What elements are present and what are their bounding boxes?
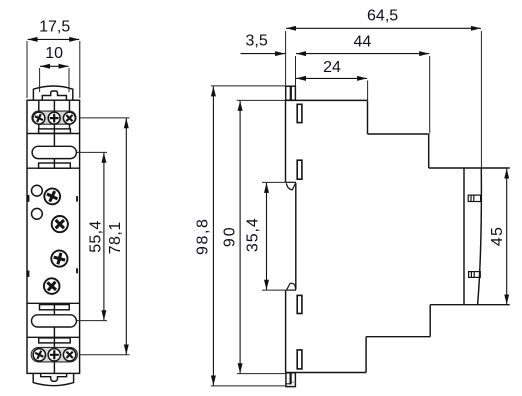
extension line side 35,4 top: [262, 181, 285, 183]
cover hinge hook bottom: [287, 283, 296, 290]
top terminal slot stadium: [32, 111, 76, 124]
dimension line 17,5: [28, 38, 80, 40]
top cap: [33, 86, 72, 100]
indicator hole 2: [32, 208, 43, 219]
case seam tick right lower: [76, 268, 78, 273]
din clip tab top: [286, 86, 296, 100]
potentiometer screw A: [42, 186, 63, 207]
case seam tick right upper: [76, 196, 78, 202]
din clip tab bottom inner step: [286, 383, 291, 385]
terminal screw side rect 1: [297, 104, 302, 122]
case seam tick left upper: [28, 195, 30, 202]
screw terminal 5: [48, 349, 60, 361]
extension line front 78,1 bottom: [80, 354, 130, 356]
divider bottom of top oval section: [27, 167, 80, 169]
screw terminal 2: [48, 112, 60, 124]
top step horizontal 2 with 45 extension: [429, 167, 510, 169]
svg-text:98,8: 98,8: [195, 217, 212, 255]
top label plate: [39, 129, 71, 134]
top surface: [286, 99, 368, 101]
dimension line 98,8: [212, 86, 214, 385]
din column curved right edge: [478, 168, 482, 304]
din rail clip pin lower: [469, 272, 481, 278]
top terminal block slot lines: [39, 100, 70, 133]
svg-text:64,5: 64,5: [367, 7, 398, 24]
din clip tab bottom inner line: [290, 373, 292, 385]
terminal screw side rect 4: [297, 350, 302, 369]
bottom label plate: [39, 338, 70, 343]
center line upper oval section: [53, 134, 55, 169]
case seam tick left lower: [28, 271, 30, 277]
bottom step vertical 1: [365, 337, 367, 373]
svg-text:90: 90: [222, 225, 239, 247]
screw terminal 6: [61, 346, 79, 364]
fixing hole oval top: [32, 146, 76, 158]
dimension line 3,5 leader: [241, 53, 286, 55]
divider top of bottom oval section: [27, 302, 80, 304]
front face middle recessed: [295, 183, 297, 290]
front body outline: [27, 100, 80, 373]
top step horizontal 1: [368, 133, 429, 135]
extension line front 78,1 top: [80, 117, 130, 119]
dimension line 35,4: [266, 183, 268, 290]
screw terminal 4: [31, 347, 47, 363]
din column left edge: [463, 168, 465, 305]
svg-text:3,5: 3,5: [245, 33, 267, 50]
potentiometer screw B: [48, 213, 71, 236]
svg-text:10: 10: [45, 45, 63, 62]
dimension line 44: [296, 53, 429, 55]
label plate above bottom oval: [40, 305, 70, 310]
svg-text:55,4: 55,4: [88, 220, 105, 252]
bottom surface: [286, 372, 367, 374]
label plate under top oval: [39, 163, 71, 168]
extension line side 44 right: [429, 56, 431, 134]
divider top of bottom terminal block: [27, 336, 80, 338]
bottom terminal slot stadium: [31, 347, 77, 362]
extension line side 90 bottom: [237, 373, 285, 375]
fixing hole oval bottom: [32, 315, 77, 327]
svg-text:17,5: 17,5: [39, 18, 70, 35]
dimension line 64,5: [286, 27, 481, 29]
top step vertical 2: [428, 134, 430, 168]
cover hinge notch top: [285, 181, 296, 183]
extension line front 55,4 top: [77, 151, 107, 153]
svg-text:44: 44: [354, 34, 372, 51]
extension line side 64,5 right: [480, 31, 482, 168]
dimension line 78,1: [125, 118, 127, 354]
dimension line 55,4: [103, 153, 105, 320]
extension lines front view width 17,5: [27, 41, 80, 98]
center line lower sections: [53, 303, 55, 373]
terminal screw side rect 2: [297, 160, 302, 179]
bottom cap: [33, 373, 73, 385]
extension line side 90 top: [237, 99, 285, 101]
svg-text:78,1: 78,1: [107, 221, 124, 254]
screw terminal 3: [61, 110, 78, 127]
dimension line 10: [40, 65, 69, 67]
bottom step horizontal 2 with 45 extension: [430, 304, 510, 306]
din clip tab bottom: [286, 373, 296, 387]
extension line front 55,4 bottom: [77, 320, 107, 322]
cover hinge notch bottom: [286, 289, 296, 291]
din clip tab top inner line: [290, 86, 292, 100]
extension line side 98,8 top: [211, 85, 286, 87]
front face lower: [285, 290, 287, 372]
extension line side 44 left: [295, 56, 297, 86]
dimension line 24: [296, 77, 367, 79]
potentiometer screw C: [49, 249, 69, 269]
potentiometer screw D: [41, 275, 63, 297]
svg-text:24: 24: [323, 59, 341, 76]
bottom cap inner hat: [41, 373, 67, 381]
screw terminal 1: [31, 110, 47, 126]
extension line side 64,5 left: [285, 31, 287, 86]
extension line side 98,8 bottom: [211, 385, 286, 387]
front face upper: [285, 100, 287, 182]
svg-text:45: 45: [489, 226, 506, 246]
extension lines front view width 10: [40, 68, 69, 92]
extension line side 24 right: [367, 81, 369, 101]
terminal screw side rect 3: [297, 295, 302, 313]
bottom step vertical 2: [429, 305, 431, 337]
top step vertical 1: [367, 100, 369, 134]
bottom step horizontal 1: [366, 336, 430, 338]
indicator hole 1: [32, 185, 43, 196]
extension line side 35,4 bottom: [262, 289, 286, 291]
cover hinge hook top: [286, 183, 295, 190]
dimension line 45: [506, 169, 508, 305]
divider top of oval section: [27, 133, 80, 135]
top cap inner hat: [42, 91, 66, 100]
svg-text:35,4: 35,4: [245, 217, 262, 252]
dimension line 90: [239, 101, 241, 373]
din rail clip pin upper: [468, 195, 480, 201]
